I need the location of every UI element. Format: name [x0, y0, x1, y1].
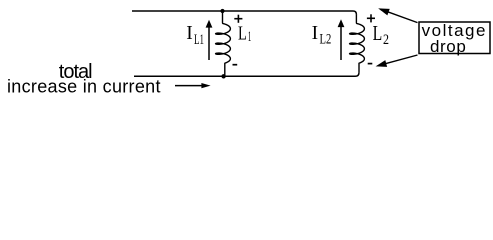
polarity plus L1	[234, 15, 242, 23]
svg-text:I: I	[312, 23, 319, 44]
polarity minus L2	[368, 63, 373, 65]
svg-text:1: 1	[248, 29, 252, 45]
callout arrow to minus	[384, 55, 418, 64]
current arrow IL2	[340, 27, 342, 61]
voltage drop text	[422, 21, 487, 56]
svg-text:L1: L1	[194, 32, 204, 48]
inductor L1	[216, 11, 231, 76]
svg-text:2: 2	[383, 32, 389, 48]
svg-text:L2: L2	[320, 31, 332, 47]
svg-text:I: I	[186, 23, 193, 44]
polarity minus L1	[233, 64, 238, 66]
wire top rail with corner into L2	[132, 11, 356, 14]
caption total increase in current	[7, 61, 161, 97]
caption arrow	[175, 85, 203, 87]
svg-text:L: L	[238, 22, 247, 44]
svg-text:L: L	[373, 21, 383, 45]
label IL2	[312, 23, 332, 47]
voltage drop box	[419, 22, 490, 54]
node junction dot top of L1	[220, 9, 224, 13]
node junction dot bottom of L1	[221, 74, 225, 78]
label L1	[238, 22, 251, 45]
svg-text:drop: drop	[430, 37, 466, 56]
label IL1	[186, 23, 204, 48]
callout arrow to plus	[386, 11, 418, 22]
label L2	[373, 21, 389, 48]
svg-text:increase in current: increase in current	[7, 77, 161, 97]
current arrow IL1	[208, 27, 210, 61]
wire bottom rail with corner from L2	[134, 72, 359, 76]
polarity plus L2	[367, 14, 375, 22]
inductor L2	[350, 14, 365, 72]
